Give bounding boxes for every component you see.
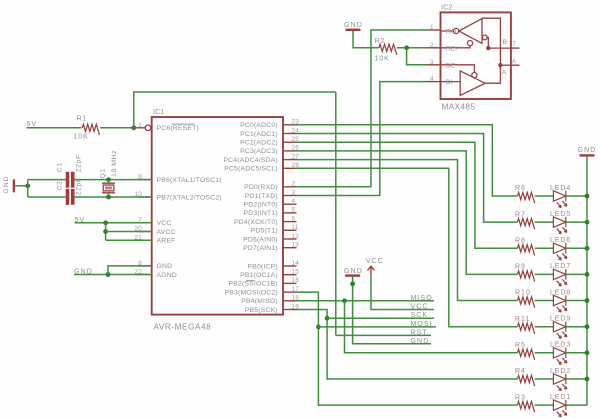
wire LED5 to GND bus [566, 221, 587, 223]
svg-text:4: 4 [292, 198, 296, 205]
wire R1 to pin1 [100, 127, 134, 129]
overline RESET [172, 123, 195, 125]
wire R11 to LED9 [535, 326, 554, 328]
svg-text:13: 13 [292, 242, 300, 249]
wire gnd to R2 [353, 31, 379, 48]
receiver buffer inside IC2 [441, 19, 483, 44]
wire reset net down to RST label [335, 92, 337, 335]
svg-text:Q1: Q1 [99, 168, 106, 178]
svg-text:RE/: RE/ [446, 45, 458, 52]
pin 25 stub [283, 141, 297, 143]
svg-text:PC1(ADC1): PC1(ADC1) [240, 131, 278, 138]
junction GND bus LED4 [585, 194, 590, 199]
IC2 pin 4 stub [427, 81, 441, 83]
svg-text:RST: RST [411, 329, 428, 336]
svg-text:R7: R7 [515, 211, 526, 218]
resistor R7 zigzag [518, 219, 535, 230]
svg-text:LED5: LED5 [550, 211, 571, 218]
wire gnd down to GND label [353, 277, 431, 344]
svg-text:22pF: 22pF [76, 177, 83, 195]
pin 5 stub [283, 212, 297, 214]
svg-text:MOSI: MOSI [411, 321, 433, 328]
pin 6 stub [283, 221, 297, 223]
wire to crystal bottom plate [108, 193, 110, 197]
wire to SCK label [327, 317, 434, 319]
wire DI to TXD [297, 82, 428, 196]
wire R10 to LED8 [535, 300, 554, 302]
svg-text:LED6: LED6 [550, 237, 571, 244]
wire LED4 to GND bus [566, 195, 587, 197]
svg-text:PB1(OC1A): PB1(OC1A) [240, 272, 278, 279]
wire PC0 to LED row [297, 125, 518, 196]
junction GND bus LED9 [585, 324, 590, 329]
wire rail bottom right to pin10 [75, 196, 152, 198]
svg-text:R3: R3 [515, 394, 526, 401]
svg-text:PC6(RESET): PC6(RESET) [157, 125, 199, 132]
wire R8 to LED6 [535, 247, 554, 249]
wire R4 to LED2 [535, 378, 554, 380]
pin 17 stub [283, 291, 297, 293]
svg-text:R5: R5 [515, 342, 526, 349]
wire LED3 to GND bus [566, 352, 587, 354]
junction GND bus LED8 [585, 298, 590, 303]
svg-text:RO: RO [446, 29, 457, 36]
capacitor C2 [66, 189, 70, 205]
junction MISO [342, 298, 347, 303]
svg-text:IC2: IC2 [441, 4, 453, 11]
wire junction to DE pin [407, 48, 427, 65]
IC2 pin 6 stub A [511, 64, 520, 66]
pin 8 stub [137, 265, 151, 267]
wire VCC symbol to VCC label [371, 275, 434, 309]
LED LED6 [553, 243, 566, 260]
svg-text:PD3(INT1): PD3(INT1) [244, 210, 278, 217]
junction GND bus LED5 [585, 220, 590, 225]
junction GND bus LED7 [585, 272, 590, 277]
svg-text:16: 16 [292, 277, 300, 284]
svg-text:LED1: LED1 [550, 394, 571, 401]
wire rail connector [27, 180, 29, 197]
LED LED5 [553, 217, 566, 234]
svg-text:PD4(XCK/T0): PD4(XCK/T0) [234, 219, 278, 226]
svg-text:PD7(AIN1): PD7(AIN1) [243, 245, 278, 252]
LED LED7 [553, 269, 566, 286]
resistor R11 zigzag [518, 323, 535, 334]
IC2 pin 3 stub [427, 64, 441, 66]
wire to AVCC [106, 231, 152, 233]
svg-text:GND: GND [344, 22, 363, 29]
pin 15 stub [283, 274, 297, 276]
svg-text:PC0(ADC0): PC0(ADC0) [240, 122, 278, 129]
wire LED1 to GND bus [566, 404, 587, 406]
svg-text:LED3: LED3 [550, 342, 571, 349]
junction crystal bottom [106, 195, 111, 200]
LED LED1 [553, 400, 566, 417]
resistor R2 zigzag [379, 44, 397, 55]
wire PC2 to LED row [297, 142, 518, 248]
svg-text:2: 2 [430, 42, 434, 49]
LED LED2 [553, 374, 566, 391]
svg-text:PB7(XTAL2/TOSC2): PB7(XTAL2/TOSC2) [157, 194, 222, 201]
svg-text:AVCC: AVCC [157, 229, 176, 236]
pin 16 stub [283, 282, 297, 284]
wire 5V to R1 [27, 127, 82, 129]
svg-text:LED2: LED2 [550, 368, 571, 375]
svg-text:LED7: LED7 [550, 263, 571, 270]
junction GND bus LED3 [585, 350, 590, 355]
svg-text:2: 2 [292, 181, 296, 188]
wire MISO from pin18 to label [297, 300, 435, 302]
svg-text:PD0(RXD): PD0(RXD) [244, 184, 278, 191]
wire LED8 to GND bus [566, 300, 587, 302]
pin 3 stub [283, 195, 297, 197]
pin 4 stub [283, 203, 297, 205]
driver buffer inside IC2 [441, 71, 486, 96]
transceiver IC2 MAX485 body [441, 12, 511, 99]
svg-text:AGND: AGND [157, 272, 177, 279]
junction gnd rails [25, 183, 30, 188]
junction RE/DE [404, 45, 409, 50]
junction GND bus LED6 [585, 246, 590, 251]
wire to AREF [106, 239, 152, 241]
resistor R8 zigzag [518, 245, 535, 256]
wire to crystal top plate [108, 180, 110, 184]
svg-text:12: 12 [292, 233, 300, 240]
resistor R1 zigzag [82, 124, 99, 135]
resistor R10 zigzag [518, 297, 535, 308]
junction GND left [106, 272, 111, 277]
wire gnd to rails [15, 185, 28, 187]
svg-text:PB6(XTAL1/TOSC1): PB6(XTAL1/TOSC1) [157, 177, 222, 184]
wire RO to RXD [297, 30, 428, 187]
svg-text:VCC: VCC [411, 304, 429, 311]
svg-text:6: 6 [292, 215, 296, 222]
wire R7 to LED5 [535, 221, 554, 223]
wire LED6 to GND bus [566, 247, 587, 249]
svg-text:B: B [503, 39, 508, 46]
wire LED9 to GND bus [566, 326, 587, 328]
resistor R4 zigzag [518, 375, 535, 386]
wire to MOSI label [318, 326, 436, 328]
svg-text:PB5(SCK): PB5(SCK) [245, 307, 278, 314]
ground bar right [580, 154, 595, 156]
resistor R3 zigzag [518, 402, 535, 413]
ground bar middle [345, 274, 360, 276]
IC2 pin 7 stub B [511, 47, 520, 49]
svg-text:PC5(ADC5/SCL): PC5(ADC5/SCL) [224, 166, 278, 173]
wire GND bus right [586, 157, 588, 406]
ground bar top middle [346, 29, 361, 31]
svg-text:C2: C2 [57, 181, 64, 191]
svg-text:PD2(INT0): PD2(INT0) [244, 202, 278, 209]
DE enable bubble and line [441, 65, 478, 78]
svg-text:PD1(TXD): PD1(TXD) [245, 193, 278, 200]
svg-text:GND: GND [157, 263, 173, 270]
crystal Q1 [102, 183, 115, 193]
svg-text:18 MHz: 18 MHz [111, 150, 118, 177]
RE enable bubble and line [441, 41, 473, 48]
svg-text:1: 1 [430, 24, 434, 31]
capacitor C1 [66, 172, 70, 188]
svg-text:PD6(AIN0): PD6(AIN0) [243, 236, 278, 243]
svg-text:4: 4 [430, 76, 434, 83]
pin 1 PC6/RESET stub with inversion bubble [135, 127, 146, 129]
svg-text:DI: DI [446, 79, 453, 86]
IC2 pin 1 stub [427, 29, 441, 31]
junction GND bus LED2 [585, 377, 590, 382]
svg-text:GND: GND [578, 147, 597, 154]
svg-text:PC2(ADC2): PC2(ADC2) [240, 140, 278, 147]
svg-text:3: 3 [292, 189, 296, 196]
pin 12 stub [283, 238, 297, 240]
wire R3 to LED1 [535, 404, 554, 406]
resistor R6 zigzag [518, 192, 535, 203]
svg-text:PB2(SS/OC1B): PB2(SS/OC1B) [229, 281, 278, 288]
wire R2 to RE pin [397, 47, 427, 49]
svg-text:PC3(ADC3): PC3(ADC3) [240, 148, 278, 155]
vcc arrow symbol [368, 266, 375, 275]
wire MOSI from pin17 to LED1 row [297, 292, 518, 405]
LED LED4 [553, 191, 566, 208]
svg-text:PC4(ADC4/SDA): PC4(ADC4/SDA) [223, 157, 277, 164]
svg-text:R8: R8 [515, 238, 526, 245]
svg-text:IC1: IC1 [153, 109, 165, 116]
svg-text:R6: R6 [515, 185, 526, 192]
pin 19 stub [283, 309, 297, 311]
wire SCK from pin19 to LED2 row [297, 310, 518, 380]
svg-text:PD5(T1): PD5(T1) [251, 228, 278, 235]
pin 10 stub [137, 196, 151, 198]
svg-text:R4: R4 [515, 368, 526, 375]
pin 23 stub [283, 124, 297, 126]
svg-text:AREF: AREF [157, 238, 176, 245]
svg-text:R2: R2 [375, 38, 386, 45]
svg-text:GND: GND [411, 338, 430, 345]
svg-text:LED8: LED8 [550, 289, 571, 296]
svg-text:SCK: SCK [411, 312, 429, 319]
svg-text:5: 5 [292, 207, 296, 214]
wire PC1 to LED row [297, 134, 518, 223]
junction MOSI [316, 325, 321, 330]
svg-text:R9: R9 [515, 264, 526, 271]
wire PC4 to LED row [297, 160, 518, 301]
pin 2 stub [283, 186, 297, 188]
IC2 pin 2 stub [427, 47, 441, 49]
resistor R5 zigzag [518, 349, 535, 360]
svg-text:R11: R11 [515, 316, 530, 323]
wire PC3 to LED row [297, 151, 518, 275]
svg-text:LED4: LED4 [550, 185, 571, 192]
wire PC5 to LED row [297, 168, 518, 326]
wire 5V to VCC pin [75, 222, 152, 224]
junction on gnd wire [350, 281, 355, 286]
junction at pin1/reset [131, 125, 136, 130]
LED LED9 [553, 322, 566, 339]
svg-text:22pF: 22pF [76, 154, 83, 172]
wire rail top right to pin9 [75, 179, 152, 181]
junction AVCC [103, 229, 108, 234]
pin 21 stub [137, 239, 151, 241]
svg-text:11: 11 [292, 224, 299, 231]
pin 14 stub [283, 265, 297, 267]
svg-text:VCC: VCC [157, 220, 172, 227]
wire reset net up and across top [134, 92, 336, 128]
pin 11 stub [283, 229, 297, 231]
svg-text:PB0(ICP): PB0(ICP) [247, 263, 277, 270]
svg-text:DE: DE [446, 62, 456, 69]
svg-text:C1: C1 [57, 162, 64, 172]
pin 20 stub [137, 231, 151, 233]
svg-text:10K: 10K [375, 56, 390, 63]
wire 5V down [105, 223, 107, 240]
pin 28 stub [283, 167, 297, 169]
wire R5 to LED3 [535, 352, 554, 354]
wire to GND pin [108, 266, 152, 275]
svg-text:3: 3 [430, 59, 434, 66]
pin 26 stub [283, 150, 297, 152]
pin 7 stub [137, 222, 151, 224]
svg-text:LED9: LED9 [550, 316, 571, 323]
resistor R9 zigzag [518, 271, 535, 282]
svg-text:15: 15 [292, 269, 300, 276]
microcontroller IC1 AVR-MEGA48 body [152, 117, 283, 315]
pin 18 stub [283, 300, 297, 302]
pin 13 stub [283, 247, 297, 249]
wire R6 to LED4 [535, 195, 554, 197]
wire R9 to LED7 [535, 273, 554, 275]
svg-text:A: A [502, 69, 507, 76]
pin 27 stub [283, 159, 297, 161]
junction SCK [325, 316, 330, 321]
LED LED8 [553, 295, 566, 312]
junction crystal top [106, 177, 111, 182]
svg-text:1: 1 [138, 122, 142, 129]
wire MISO down to LED3 row [345, 301, 518, 353]
pin 9 stub [137, 179, 151, 181]
svg-text:R10: R10 [515, 290, 531, 297]
svg-text:R1: R1 [77, 115, 88, 122]
pin 24 stub [283, 133, 297, 135]
svg-text:MISO: MISO [411, 295, 433, 302]
LED LED3 [553, 348, 566, 365]
svg-text:14: 14 [292, 260, 300, 267]
svg-text:PB3(MOSI/OC2): PB3(MOSI/OC2) [225, 289, 278, 296]
svg-text:GND: GND [344, 268, 363, 275]
wire GND to AGND pin [74, 274, 152, 276]
svg-text:7: 7 [512, 41, 516, 48]
svg-text:GND: GND [3, 175, 10, 193]
wire LED7 to GND bus [566, 273, 587, 275]
wire to RST label [336, 334, 431, 336]
internal wiring of IC2 [482, 18, 511, 83]
svg-text:MAX485: MAX485 [442, 103, 476, 112]
svg-text:AVR-MEGA48: AVR-MEGA48 [154, 323, 212, 332]
wire rail top left [28, 179, 66, 181]
pin 22 stub [137, 274, 151, 276]
svg-text:VCC: VCC [366, 258, 384, 265]
svg-text:PB4(MISO): PB4(MISO) [241, 298, 278, 305]
junction 5V [103, 220, 108, 225]
svg-text:10K: 10K [74, 134, 89, 141]
ground symbol left of crystal [13, 179, 15, 192]
wire rail bottom left [28, 196, 66, 198]
overline SS [246, 280, 255, 282]
svg-text:A: A [512, 58, 517, 65]
wire LED2 to GND bus [566, 378, 587, 380]
